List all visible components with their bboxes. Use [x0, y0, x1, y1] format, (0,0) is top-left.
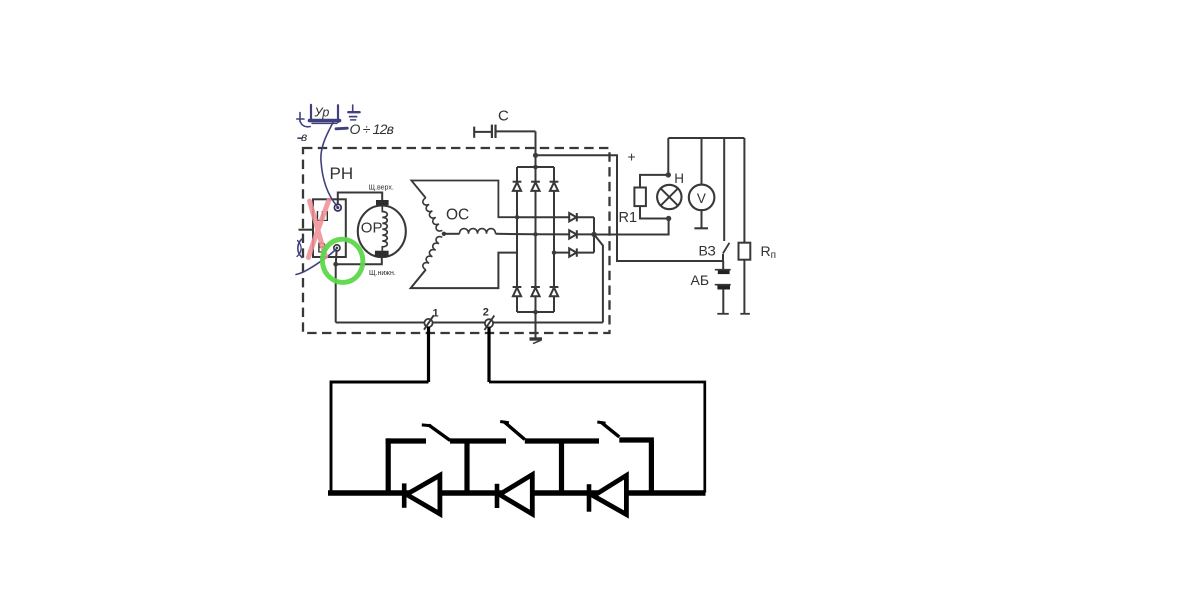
svg-text:ОР: ОР [361, 220, 383, 237]
node brush junction [333, 262, 338, 267]
wire bridge main vertical [535, 131, 537, 167]
node phase3 [552, 250, 556, 254]
wire rail to Rn [743, 138, 745, 243]
marker red X over Sh [308, 200, 328, 257]
wire R1 bottom lead [640, 206, 669, 218]
wire ladder top segments [386, 438, 426, 443]
wire field diode3 out [577, 252, 594, 254]
wire field diode1 out [577, 216, 594, 218]
capacitor C end bar [473, 127, 475, 138]
wire bridge bottom bar [517, 311, 554, 313]
diode negative bottom, column x=517.0 [513, 286, 522, 288]
diode negative bottom, column x=554.0 [550, 286, 559, 288]
wire consumer top rail [668, 137, 744, 139]
wire field diode common bar [593, 217, 595, 252]
wire stator to star [444, 233, 460, 235]
ink bracket scribble [298, 239, 302, 258]
wire D+ diagonal to bottom rail [594, 234, 603, 322]
node plus output [533, 153, 538, 158]
node lamp bottom [666, 216, 671, 221]
wire ladder vertical mid2 [559, 441, 564, 493]
stator winding lower coil [423, 237, 442, 270]
node phase1 [515, 215, 519, 219]
wire bridge top bar [517, 166, 554, 168]
wire phase1 row to field diode [517, 216, 569, 218]
svg-text:1: 1 [433, 308, 439, 320]
ink dash before 0 [336, 127, 347, 130]
wire phase2 row to field diode [536, 233, 570, 235]
svg-text:+: + [628, 149, 636, 165]
diode positive top, column x=517.0 [513, 181, 522, 183]
terminal 2 [485, 319, 493, 327]
wire ladder vertical right [649, 441, 654, 493]
wire bridge column x=517.0 [516, 167, 518, 182]
voltmeter V [689, 185, 715, 211]
wire Sh terminal to upper brush [338, 193, 382, 206]
svg-text:РН: РН [330, 164, 354, 183]
wire terminal2 drop [487, 327, 490, 382]
node phase2 [533, 232, 537, 236]
svg-text:ОС: ОС [446, 207, 469, 224]
switch VZ blade [723, 243, 730, 254]
wire voltmeter to ground [701, 209, 703, 228]
diode D2 thick [495, 484, 500, 508]
diode negative bottom, column x=535.5 [531, 286, 540, 288]
wire Rn bottom lead [743, 260, 745, 314]
diode D3 thick [587, 484, 592, 512]
diode D1 thick [402, 483, 407, 507]
wire outer left path [331, 382, 429, 493]
resistor Rn [739, 243, 751, 260]
switch S2 blade [504, 422, 525, 440]
wire rail to voltmeter [701, 138, 703, 186]
svg-text:2: 2 [483, 307, 489, 319]
battery AB top tick [722, 261, 724, 270]
wire phase2 row [496, 233, 536, 236]
wire rail to lamp [667, 138, 669, 175]
wire thick bottom bus [328, 490, 706, 495]
svg-text:АБ: АБ [691, 272, 710, 288]
wire junction down to bottom rail [335, 264, 337, 322]
terminal 1 [424, 319, 432, 327]
ink letter v dash [298, 137, 302, 139]
wire R1 top lead [640, 175, 668, 188]
node bridge top bar [533, 165, 538, 170]
wire bottom bar to ground [535, 312, 537, 338]
svg-text:R1: R1 [619, 210, 638, 226]
wire battery to bottom [722, 289, 724, 313]
field diode row1 [569, 213, 576, 221]
brush upper [376, 200, 389, 205]
battery AB plates [715, 269, 731, 271]
wire field diode2 out [577, 233, 594, 235]
wire rail to switch [723, 138, 725, 241]
wire regulator left stub [299, 229, 314, 231]
wire phase3 row to field diode [554, 252, 569, 254]
wire ladder vertical left [386, 438, 391, 493]
ink Ur box left bar [310, 105, 312, 121]
svg-text:в: в [301, 130, 307, 144]
switch S3 blade [601, 422, 619, 437]
wire stator phase3 lead [411, 253, 517, 289]
terminal Sh ring [334, 204, 341, 211]
wire capacitor to plus node [496, 130, 536, 132]
capacitor C plates [491, 125, 493, 138]
wire plus feed to battery [536, 155, 724, 261]
rotor field coil [382, 205, 387, 251]
wire bridge column x=554.0 [553, 167, 555, 182]
stator star node [442, 232, 446, 236]
stator winding upper coil [423, 198, 442, 231]
node bridge bottom [533, 310, 538, 315]
battery bottom end bar [717, 313, 729, 315]
wire terminal1 drop [427, 327, 430, 382]
node D+ [591, 232, 596, 237]
svg-text:С: С [498, 108, 509, 125]
field diode row3 [569, 248, 576, 256]
svg-text:ВЗ: ВЗ [699, 243, 716, 259]
wire bridge column x=535.5 [535, 167, 537, 182]
wire lower brush to V-junction [336, 257, 382, 264]
wire D+ to lamp bottom [594, 219, 669, 235]
marker green circle over V [320, 237, 366, 285]
svg-text:Ур: Ур [314, 106, 330, 120]
ink ground symbol [352, 105, 354, 112]
ink Ur underline [310, 119, 340, 123]
svg-text:Н: Н [674, 171, 684, 186]
ground voltmeter bar [694, 227, 708, 229]
diode positive top, column x=535.5 [531, 181, 540, 183]
svg-text:О ÷ 12в: О ÷ 12в [350, 121, 394, 137]
wire V terminal down to junction [335, 250, 338, 264]
wire ladder vertical mid1 [464, 441, 469, 493]
resistor R1 [634, 188, 646, 207]
terminal V ring [334, 245, 340, 251]
ink curve to V terminal [296, 248, 337, 274]
brush lower [375, 251, 389, 257]
wire bottom rail inside box [336, 322, 603, 324]
ink Ur box right bar [337, 105, 339, 122]
voltage regulator PH box [313, 199, 346, 257]
ink hook [300, 122, 310, 127]
svg-text:Rп: Rп [761, 243, 777, 261]
svg-text:Щ.верх.: Щ.верх. [369, 185, 394, 192]
svg-text:V: V [697, 191, 706, 206]
wire outer right path [489, 382, 705, 493]
svg-text:Щ.нижн.: Щ.нижн. [369, 270, 396, 277]
stator winding middle coil [460, 229, 496, 234]
switch S1 blade [429, 425, 451, 441]
ink plus mark [299, 113, 301, 122]
wire capacitor left lead [474, 131, 491, 133]
diode positive top, column x=554.0 [550, 181, 559, 183]
Rn bottom end bar [740, 313, 750, 315]
node lamp top [666, 172, 671, 177]
wire stator phase1 lead [411, 181, 517, 218]
ground chassis symbol [530, 337, 543, 340]
field diode row2 [569, 230, 576, 238]
alternator dashed enclosure [303, 148, 610, 333]
rotor winding OP circle [358, 206, 406, 258]
lamp H [657, 185, 681, 209]
ink curve to Sh terminal [321, 123, 337, 207]
